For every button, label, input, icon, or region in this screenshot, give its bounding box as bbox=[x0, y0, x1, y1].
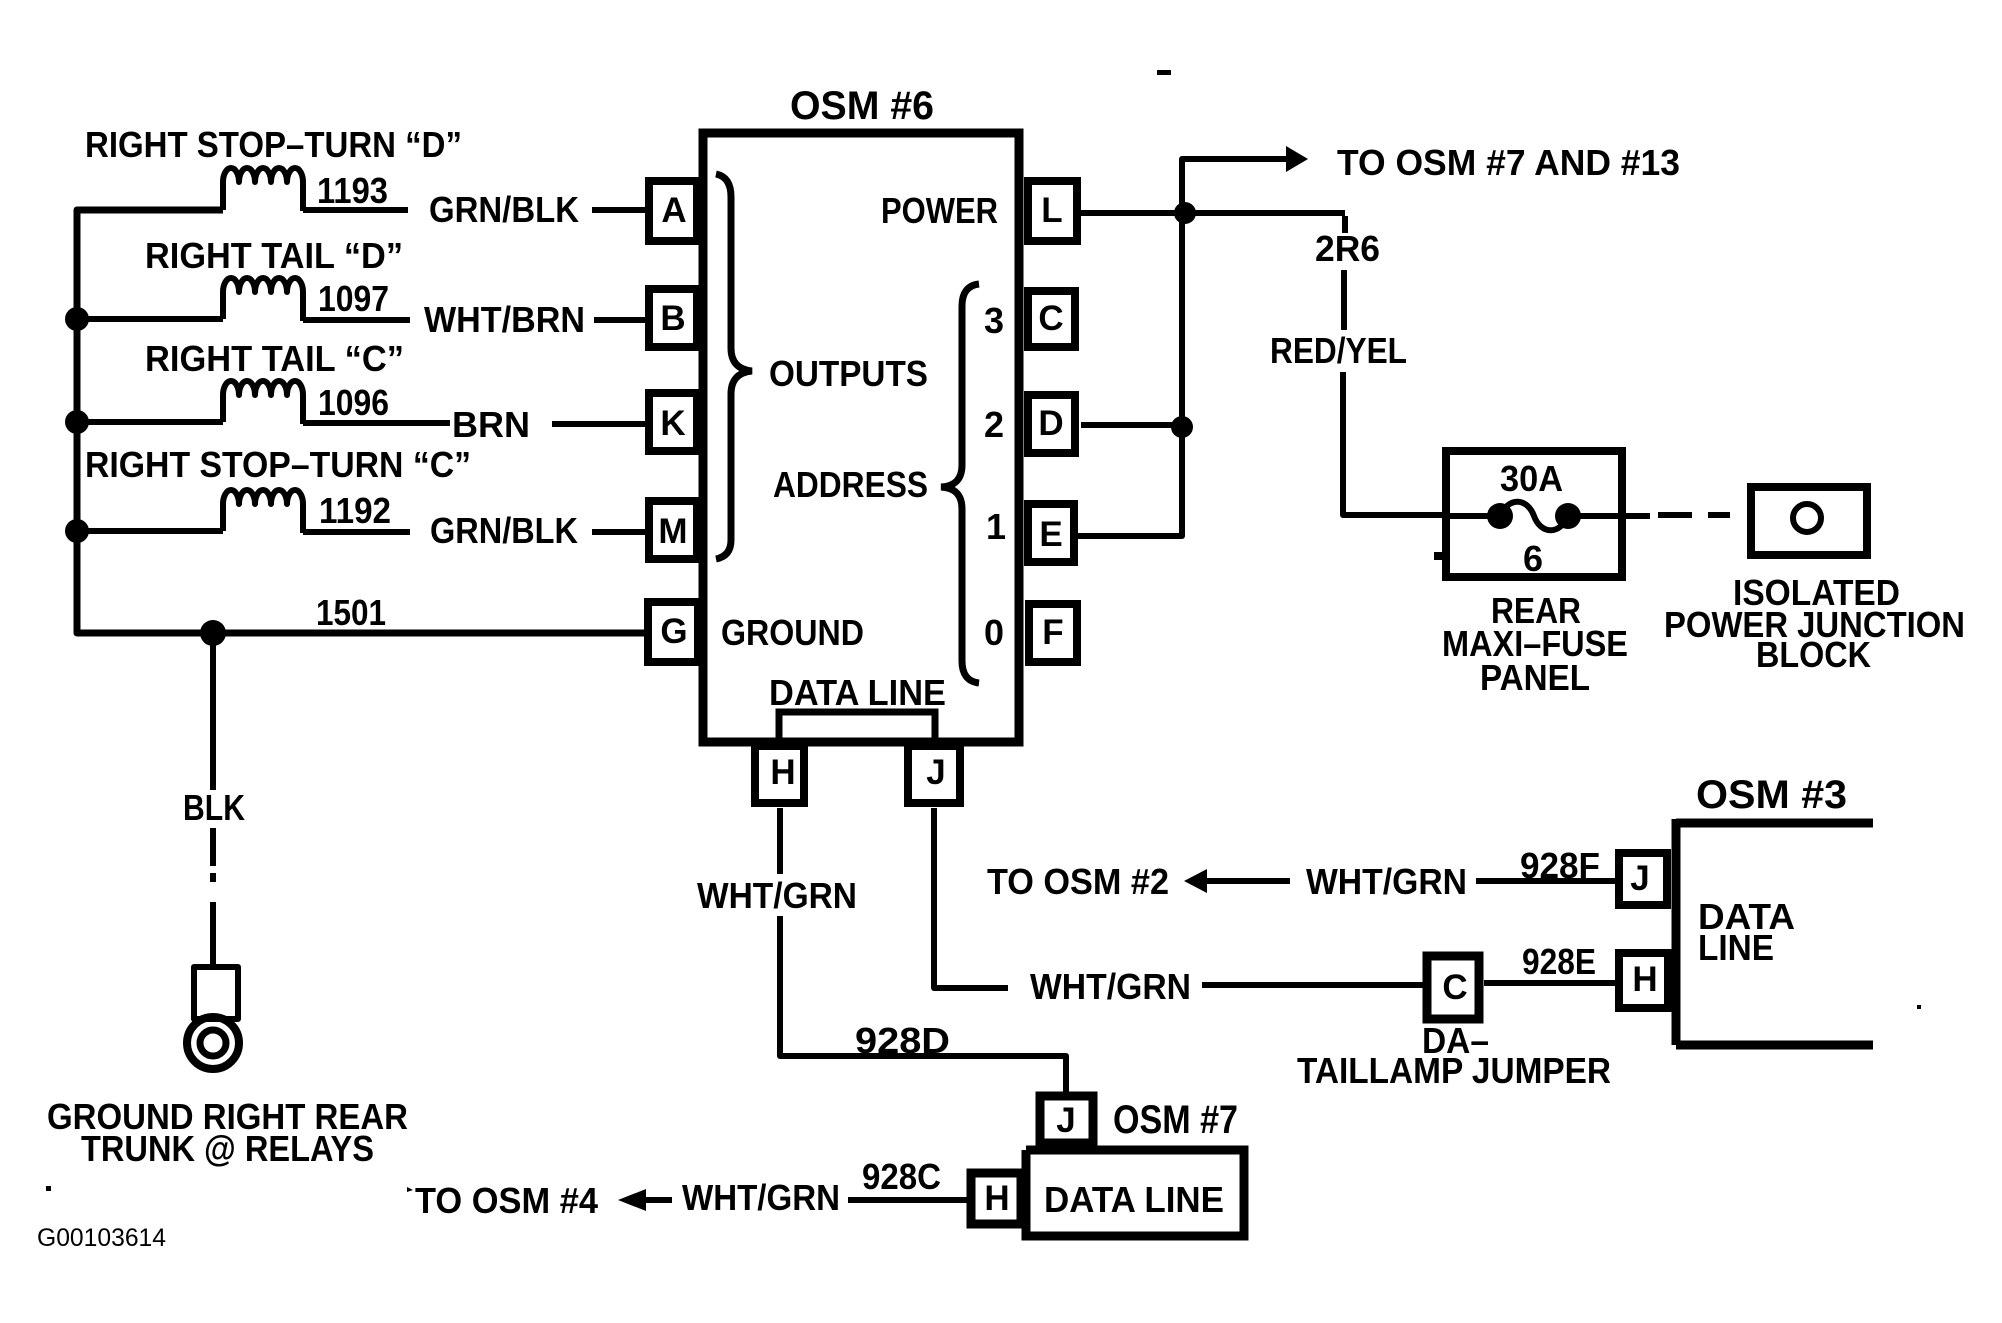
svg-text:GRN/BLK: GRN/BLK bbox=[429, 189, 579, 230]
svg-text:3: 3 bbox=[984, 300, 1004, 341]
svg-text:6: 6 bbox=[1523, 538, 1543, 579]
svg-text:G00103614: G00103614 bbox=[37, 1224, 166, 1252]
svg-text:OSM #6: OSM #6 bbox=[790, 84, 934, 128]
svg-text:OSM #7: OSM #7 bbox=[1113, 1098, 1238, 1142]
svg-text:OUTPUTS: OUTPUTS bbox=[769, 353, 928, 394]
svg-text:M: M bbox=[658, 512, 687, 551]
svg-text:1192: 1192 bbox=[319, 490, 391, 531]
svg-text:WHT/GRN: WHT/GRN bbox=[697, 875, 857, 916]
svg-text:L: L bbox=[1041, 191, 1062, 230]
svg-text:J: J bbox=[1056, 1101, 1075, 1140]
svg-text:TRUNK @ RELAYS: TRUNK @ RELAYS bbox=[81, 1128, 374, 1169]
svg-text:E: E bbox=[1039, 515, 1062, 554]
svg-text:G: G bbox=[660, 612, 687, 651]
svg-text:RIGHT STOP–TURN “C”: RIGHT STOP–TURN “C” bbox=[85, 444, 471, 485]
svg-text:C: C bbox=[1442, 968, 1467, 1007]
svg-text:K: K bbox=[660, 404, 685, 443]
svg-text:H: H bbox=[1632, 960, 1657, 999]
svg-text:POWER: POWER bbox=[881, 190, 998, 231]
svg-text:WHT/BRN: WHT/BRN bbox=[424, 299, 585, 340]
svg-text:2: 2 bbox=[984, 404, 1004, 445]
svg-text:DATA LINE: DATA LINE bbox=[769, 672, 946, 713]
svg-text:928E: 928E bbox=[1522, 941, 1596, 982]
svg-text:30A: 30A bbox=[1500, 458, 1563, 499]
svg-text:GRN/BLK: GRN/BLK bbox=[430, 510, 578, 551]
svg-text:BRN: BRN bbox=[452, 404, 530, 445]
svg-text:1097: 1097 bbox=[318, 278, 389, 319]
svg-text:A: A bbox=[661, 191, 686, 230]
svg-text:H: H bbox=[770, 753, 795, 792]
svg-text:D: D bbox=[1038, 404, 1063, 443]
svg-text:WHT/GRN: WHT/GRN bbox=[1030, 966, 1191, 1007]
svg-text:GROUND: GROUND bbox=[721, 612, 864, 653]
svg-text:1: 1 bbox=[986, 506, 1006, 547]
svg-text:2R6: 2R6 bbox=[1315, 228, 1380, 269]
svg-text:TAILLAMP JUMPER: TAILLAMP JUMPER bbox=[1297, 1050, 1611, 1091]
svg-text:928F: 928F bbox=[1520, 845, 1600, 886]
svg-text:RED/YEL: RED/YEL bbox=[1270, 330, 1407, 371]
svg-text:ADDRESS: ADDRESS bbox=[773, 464, 928, 505]
svg-text:C: C bbox=[1038, 299, 1063, 338]
svg-text:PANEL: PANEL bbox=[1480, 657, 1590, 698]
svg-text:1501: 1501 bbox=[316, 592, 386, 633]
svg-text:TO OSM #7 AND #13: TO OSM #7 AND #13 bbox=[1337, 142, 1680, 183]
svg-text:WHT/GRN: WHT/GRN bbox=[1306, 861, 1467, 902]
svg-text:TO OSM #2: TO OSM #2 bbox=[987, 861, 1169, 902]
svg-text:B: B bbox=[660, 299, 685, 338]
svg-text:RIGHT TAIL “C”: RIGHT TAIL “C” bbox=[145, 338, 404, 379]
svg-text:1193: 1193 bbox=[317, 170, 388, 211]
svg-text:0: 0 bbox=[984, 612, 1004, 653]
svg-text:RIGHT TAIL “D”: RIGHT TAIL “D” bbox=[145, 235, 403, 276]
svg-text:RIGHT STOP–TURN “D”: RIGHT STOP–TURN “D” bbox=[85, 124, 462, 165]
svg-text:F: F bbox=[1042, 613, 1063, 652]
svg-text:H: H bbox=[984, 1179, 1009, 1218]
svg-text:BLK: BLK bbox=[183, 787, 245, 828]
svg-text:BLOCK: BLOCK bbox=[1756, 634, 1871, 675]
svg-text:DATA LINE: DATA LINE bbox=[1044, 1179, 1224, 1220]
svg-text:928C: 928C bbox=[862, 1156, 941, 1197]
svg-text:928D: 928D bbox=[855, 1020, 950, 1061]
svg-text:1096: 1096 bbox=[318, 382, 389, 423]
svg-text:LINE: LINE bbox=[1698, 927, 1774, 968]
svg-text:OSM #3: OSM #3 bbox=[1696, 773, 1847, 817]
svg-text:J: J bbox=[1630, 859, 1649, 898]
svg-text:TO OSM #4: TO OSM #4 bbox=[415, 1180, 598, 1221]
svg-text:WHT/GRN: WHT/GRN bbox=[682, 1177, 840, 1218]
svg-text:J: J bbox=[926, 753, 945, 792]
